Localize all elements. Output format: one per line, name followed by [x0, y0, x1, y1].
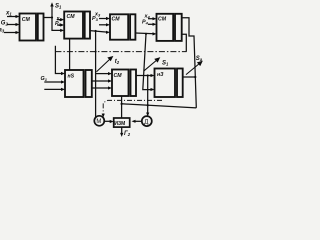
arrowhead U6 in1: [108, 72, 112, 75]
svg-text:М: М: [96, 119, 101, 125]
svg-text:P2: P2: [55, 21, 62, 27]
block U1 output-filter compartment: [38, 14, 44, 41]
svg-text:t2: t2: [115, 59, 120, 65]
arrowhead IZM down: [120, 133, 123, 137]
svg-text:ИЗМ: ИЗМ: [114, 121, 125, 127]
arrowhead wire into U3: [106, 31, 110, 34]
svg-text:нЗ: нЗ: [157, 72, 164, 78]
block U2 mixer CM2 main box: [64, 12, 83, 39]
wire S1 arrow up: [51, 6, 53, 18]
junction node U7 out vertical: [194, 76, 196, 78]
junction node bottom line D drop: [147, 104, 149, 106]
wire branch into U6 top input: [96, 73, 110, 75]
motor D circle: [142, 116, 152, 126]
svg-text:P3: P3: [92, 16, 99, 22]
junction node wire2 drop: [95, 30, 97, 32]
block U2 output-filter compartment: [85, 12, 90, 39]
arrowhead wire into U4: [153, 32, 157, 35]
junction node U6 out drop: [147, 74, 149, 76]
svg-text:СМ: СМ: [22, 17, 31, 23]
block U4 output-filter compartment: [175, 14, 182, 41]
arrowhead D to IZM: [132, 120, 136, 123]
wire U1 output to S1 tee: [44, 18, 63, 31]
svg-text:СМ: СМ: [114, 73, 123, 79]
svg-text:P4: P4: [142, 20, 149, 26]
wire U2 output to U3: [90, 31, 107, 32]
wire bottom dash-dot mechanical to motor M: [103, 100, 162, 115]
wire junction drop x=147.7 down to motor D: [147, 76, 149, 115]
arrowhead U5 in2: [61, 80, 65, 83]
tuning arrow S1: [144, 59, 158, 70]
wire U7 output right to vertical: [183, 76, 196, 78]
arrowhead motor M from link: [102, 114, 105, 118]
block U5 compartment: [86, 70, 92, 97]
arrowhead P4 U4: [153, 23, 157, 26]
junction node wire3 drop: [145, 33, 147, 35]
svg-text:a3: a3: [0, 27, 5, 33]
wire short input P3 to U3: [99, 24, 108, 26]
wire U5 outputs to U6: [92, 80, 110, 82]
wire short input P2 to U2: [57, 24, 62, 26]
block U7 nZ main box: [155, 69, 176, 98]
block U6 mixer CM5 main box: [112, 70, 129, 97]
wire input G1 to U5: [44, 81, 63, 83]
wire bottom collector line: [122, 104, 197, 108]
svg-text:x1: x1: [5, 10, 12, 16]
wire vertical feed to U5 first input: [55, 46, 63, 74]
wire input 2 to U1: [7, 24, 18, 26]
wire U6 bottom down to IZM box: [121, 96, 123, 118]
wire short input P4 to U4: [148, 23, 154, 25]
wire junction drop x=95.5 down: [95, 31, 97, 118]
svg-text:СМ: СМ: [112, 17, 121, 23]
svg-text:СМ: СМ: [67, 14, 76, 20]
tuning arrow t2: [97, 58, 111, 72]
arrowhead M to IZM: [110, 120, 114, 123]
block U3 mixer CM3 main box: [110, 14, 128, 39]
wire short input x3 to U3: [99, 18, 108, 20]
svg-text:СМ: СМ: [158, 16, 167, 22]
arrowhead x2 U2: [60, 18, 64, 21]
wire motor M to IZM arrow: [104, 120, 111, 122]
svg-text:Г2: Г2: [124, 131, 131, 137]
junction node bottom line IZM: [121, 103, 123, 105]
wire U4 upper output right and down: [182, 18, 197, 108]
block U7 compartment: [177, 69, 183, 98]
arrowhead U6 in3: [108, 86, 112, 89]
svg-text:S1: S1: [162, 61, 169, 67]
tuning arrow Sa: [186, 63, 200, 75]
arrowhead U5 in3: [61, 88, 65, 91]
junction node link x95: [95, 51, 97, 53]
arrowhead x3 U3: [106, 17, 110, 20]
wire input 3 to U1: [4, 32, 18, 34]
wire mechanical tuning link dash-dot: [55, 51, 186, 53]
block U8 IZM measuring box: [114, 118, 130, 127]
arrowhead P3 U3: [106, 23, 110, 26]
arrowhead motor D: [146, 113, 149, 117]
block U1 mixer CM1 main box: [20, 14, 37, 41]
wire short input x4 to U4: [148, 18, 154, 20]
wire junction drop x=144.5 down to U7 lower input: [143, 34, 152, 90]
arrowhead wire into U2: [60, 29, 64, 32]
wire junction drop x=69.5 down to U5 top: [69, 39, 71, 70]
svg-text:G2: G2: [1, 20, 9, 26]
svg-text:Sa: Sa: [196, 56, 203, 62]
motor M circle: [94, 116, 104, 126]
arrowhead S1 up: [50, 2, 53, 6]
arrowhead U6 in2: [108, 79, 112, 82]
junction node B1 out tee: [51, 16, 53, 18]
svg-text:G1: G1: [41, 76, 48, 82]
block U3 output-filter compartment: [130, 14, 135, 39]
wire input 3 to U5: [44, 88, 63, 90]
wire U3 output to U4: [135, 32, 154, 35]
svg-text:S1: S1: [55, 4, 62, 10]
diagonal tuning arrows: [97, 57, 202, 75]
wire short input x2 to U2: [57, 19, 62, 21]
wire U4 lower output stub to tuning link: [182, 34, 187, 51]
arrowhead input1 U1: [16, 15, 20, 18]
arrowhead U7 in2: [151, 88, 155, 91]
arrowhead P2 U2: [60, 23, 64, 26]
arrowhead U5 in1: [61, 72, 65, 75]
svg-text:нS: нS: [68, 74, 75, 80]
block U4 mixer CM4 main box: [157, 14, 174, 41]
block U6 compartment: [131, 70, 137, 97]
arrowhead input3 U1: [16, 31, 20, 34]
svg-text:Д: Д: [144, 120, 148, 126]
arrowhead input2 U1: [16, 23, 20, 26]
wire motor D to IZM arrow: [135, 120, 142, 122]
arrowhead x4 U4: [153, 17, 157, 20]
block U5 nS main box: [65, 70, 84, 97]
arrowhead U7 in1: [151, 74, 155, 77]
wire input 1 to U1: [7, 16, 18, 18]
wire U6 output to U7: [136, 75, 152, 77]
wire IZM down output: [121, 127, 123, 135]
